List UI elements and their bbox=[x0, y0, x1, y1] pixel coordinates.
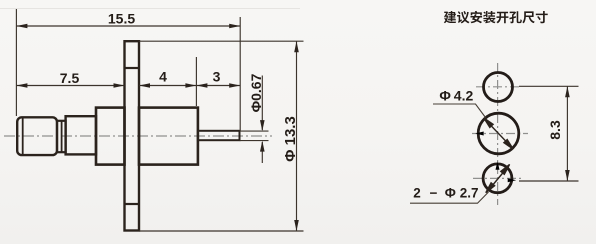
leader 2-phi2.7 bbox=[410, 192, 489, 203]
svg-text:Φ4.2: Φ4.2 bbox=[439, 87, 473, 103]
bottom hole h-centerline bbox=[473, 177, 522, 179]
top hole circle bbox=[484, 73, 513, 102]
title char 装 bbox=[483, 11, 495, 23]
title char 建 bbox=[444, 11, 456, 23]
extension line right (pin tip) bbox=[239, 17, 241, 131]
svg-text:8.3: 8.3 bbox=[547, 120, 563, 140]
title 建议安装开孔尺寸 as paths bbox=[444, 11, 548, 24]
arrows phi0.67 bbox=[260, 120, 265, 131]
svg-text:3: 3 bbox=[213, 69, 221, 85]
middle hole h-centerline bbox=[472, 133, 528, 135]
groove mid line bbox=[61, 121, 63, 152]
arrows phi13.3 bbox=[294, 41, 299, 52]
title char 安 bbox=[470, 11, 482, 23]
nut edge line bbox=[22, 118, 24, 156]
barrel cylinder bbox=[66, 116, 96, 154]
bottom hole diameter arrow bbox=[486, 164, 510, 192]
svg-text:Φ 13.3: Φ 13.3 bbox=[282, 116, 299, 162]
title char 尺 bbox=[522, 11, 534, 23]
8.3 dimension bbox=[519, 86, 579, 181]
svg-text:Φ0.67: Φ0.67 bbox=[248, 73, 264, 112]
bottom hole circle phi2.7 bbox=[483, 164, 512, 193]
rear body bbox=[139, 108, 198, 165]
coupling nut tip bbox=[17, 117, 57, 155]
faint scan line top bbox=[0, 8, 300, 10]
dim line 13.3 bbox=[296, 41, 298, 231]
svg-text:15.5: 15.5 bbox=[108, 11, 135, 27]
top hole h-centerline bbox=[476, 86, 522, 88]
ext line from bottom hole center bbox=[519, 180, 579, 182]
extension line body end bbox=[195, 57, 197, 106]
arrows 8.3 bbox=[565, 86, 570, 97]
title char 开 bbox=[496, 12, 508, 24]
contact pin bbox=[198, 131, 240, 140]
title char 议 bbox=[457, 11, 469, 23]
leader phi4.2 bbox=[433, 104, 486, 118]
bottom hole north tick bbox=[496, 161, 500, 170]
vertical centerline bbox=[497, 63, 499, 205]
flange lower hole line bbox=[125, 203, 140, 205]
middle hole west tick bbox=[475, 132, 484, 136]
ext line from top hole center bbox=[519, 85, 579, 87]
title char 寸 bbox=[536, 11, 548, 23]
arrows 3 bbox=[196, 83, 207, 88]
centerline bbox=[4, 135, 272, 137]
ext line flange top bbox=[139, 40, 304, 42]
dim line 7.5 bbox=[16, 85, 124, 87]
dim line 3 bbox=[196, 85, 240, 87]
svg-text:4: 4 bbox=[159, 69, 167, 85]
arrows 15.5 bbox=[16, 24, 27, 29]
dim line 15.5 bbox=[16, 25, 240, 27]
flange plate bbox=[125, 41, 140, 230]
svg-text:7.5: 7.5 bbox=[60, 70, 80, 86]
arrows 7.5 bbox=[16, 83, 27, 88]
extension line left bbox=[15, 9, 17, 116]
ext line flange bottom bbox=[139, 230, 304, 232]
dim line 8.3 bbox=[566, 86, 568, 181]
flange upper hole line bbox=[125, 67, 140, 69]
groove neck bbox=[57, 121, 66, 152]
dim line 4 bbox=[139, 85, 196, 87]
middle hole circle phi4.2 bbox=[478, 113, 519, 154]
front body bbox=[96, 108, 125, 165]
arrows 4 bbox=[139, 83, 150, 88]
ext lines pin diameter bbox=[240, 130, 269, 132]
phi0.67 arrow shafts bbox=[261, 76, 263, 131]
middle hole diameter arrow bbox=[484, 118, 513, 149]
title char 孔 bbox=[509, 11, 522, 23]
bottom hole east tick bbox=[508, 178, 517, 182]
